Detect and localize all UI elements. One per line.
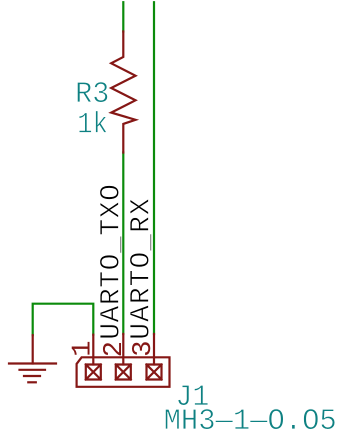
svg-text:2: 2: [100, 341, 130, 357]
svg-text:1k: 1k: [77, 109, 108, 143]
svg-text:3: 3: [129, 340, 159, 356]
svg-text:UARTO_RX: UARTO_RX: [127, 198, 158, 340]
svg-text:1: 1: [69, 341, 99, 357]
svg-text:MH3—1—O.O5: MH3—1—O.O5: [164, 405, 337, 433]
svg-text:UARTO_TXO: UARTO_TXO: [97, 184, 128, 340]
svg-text:R3: R3: [75, 78, 109, 112]
